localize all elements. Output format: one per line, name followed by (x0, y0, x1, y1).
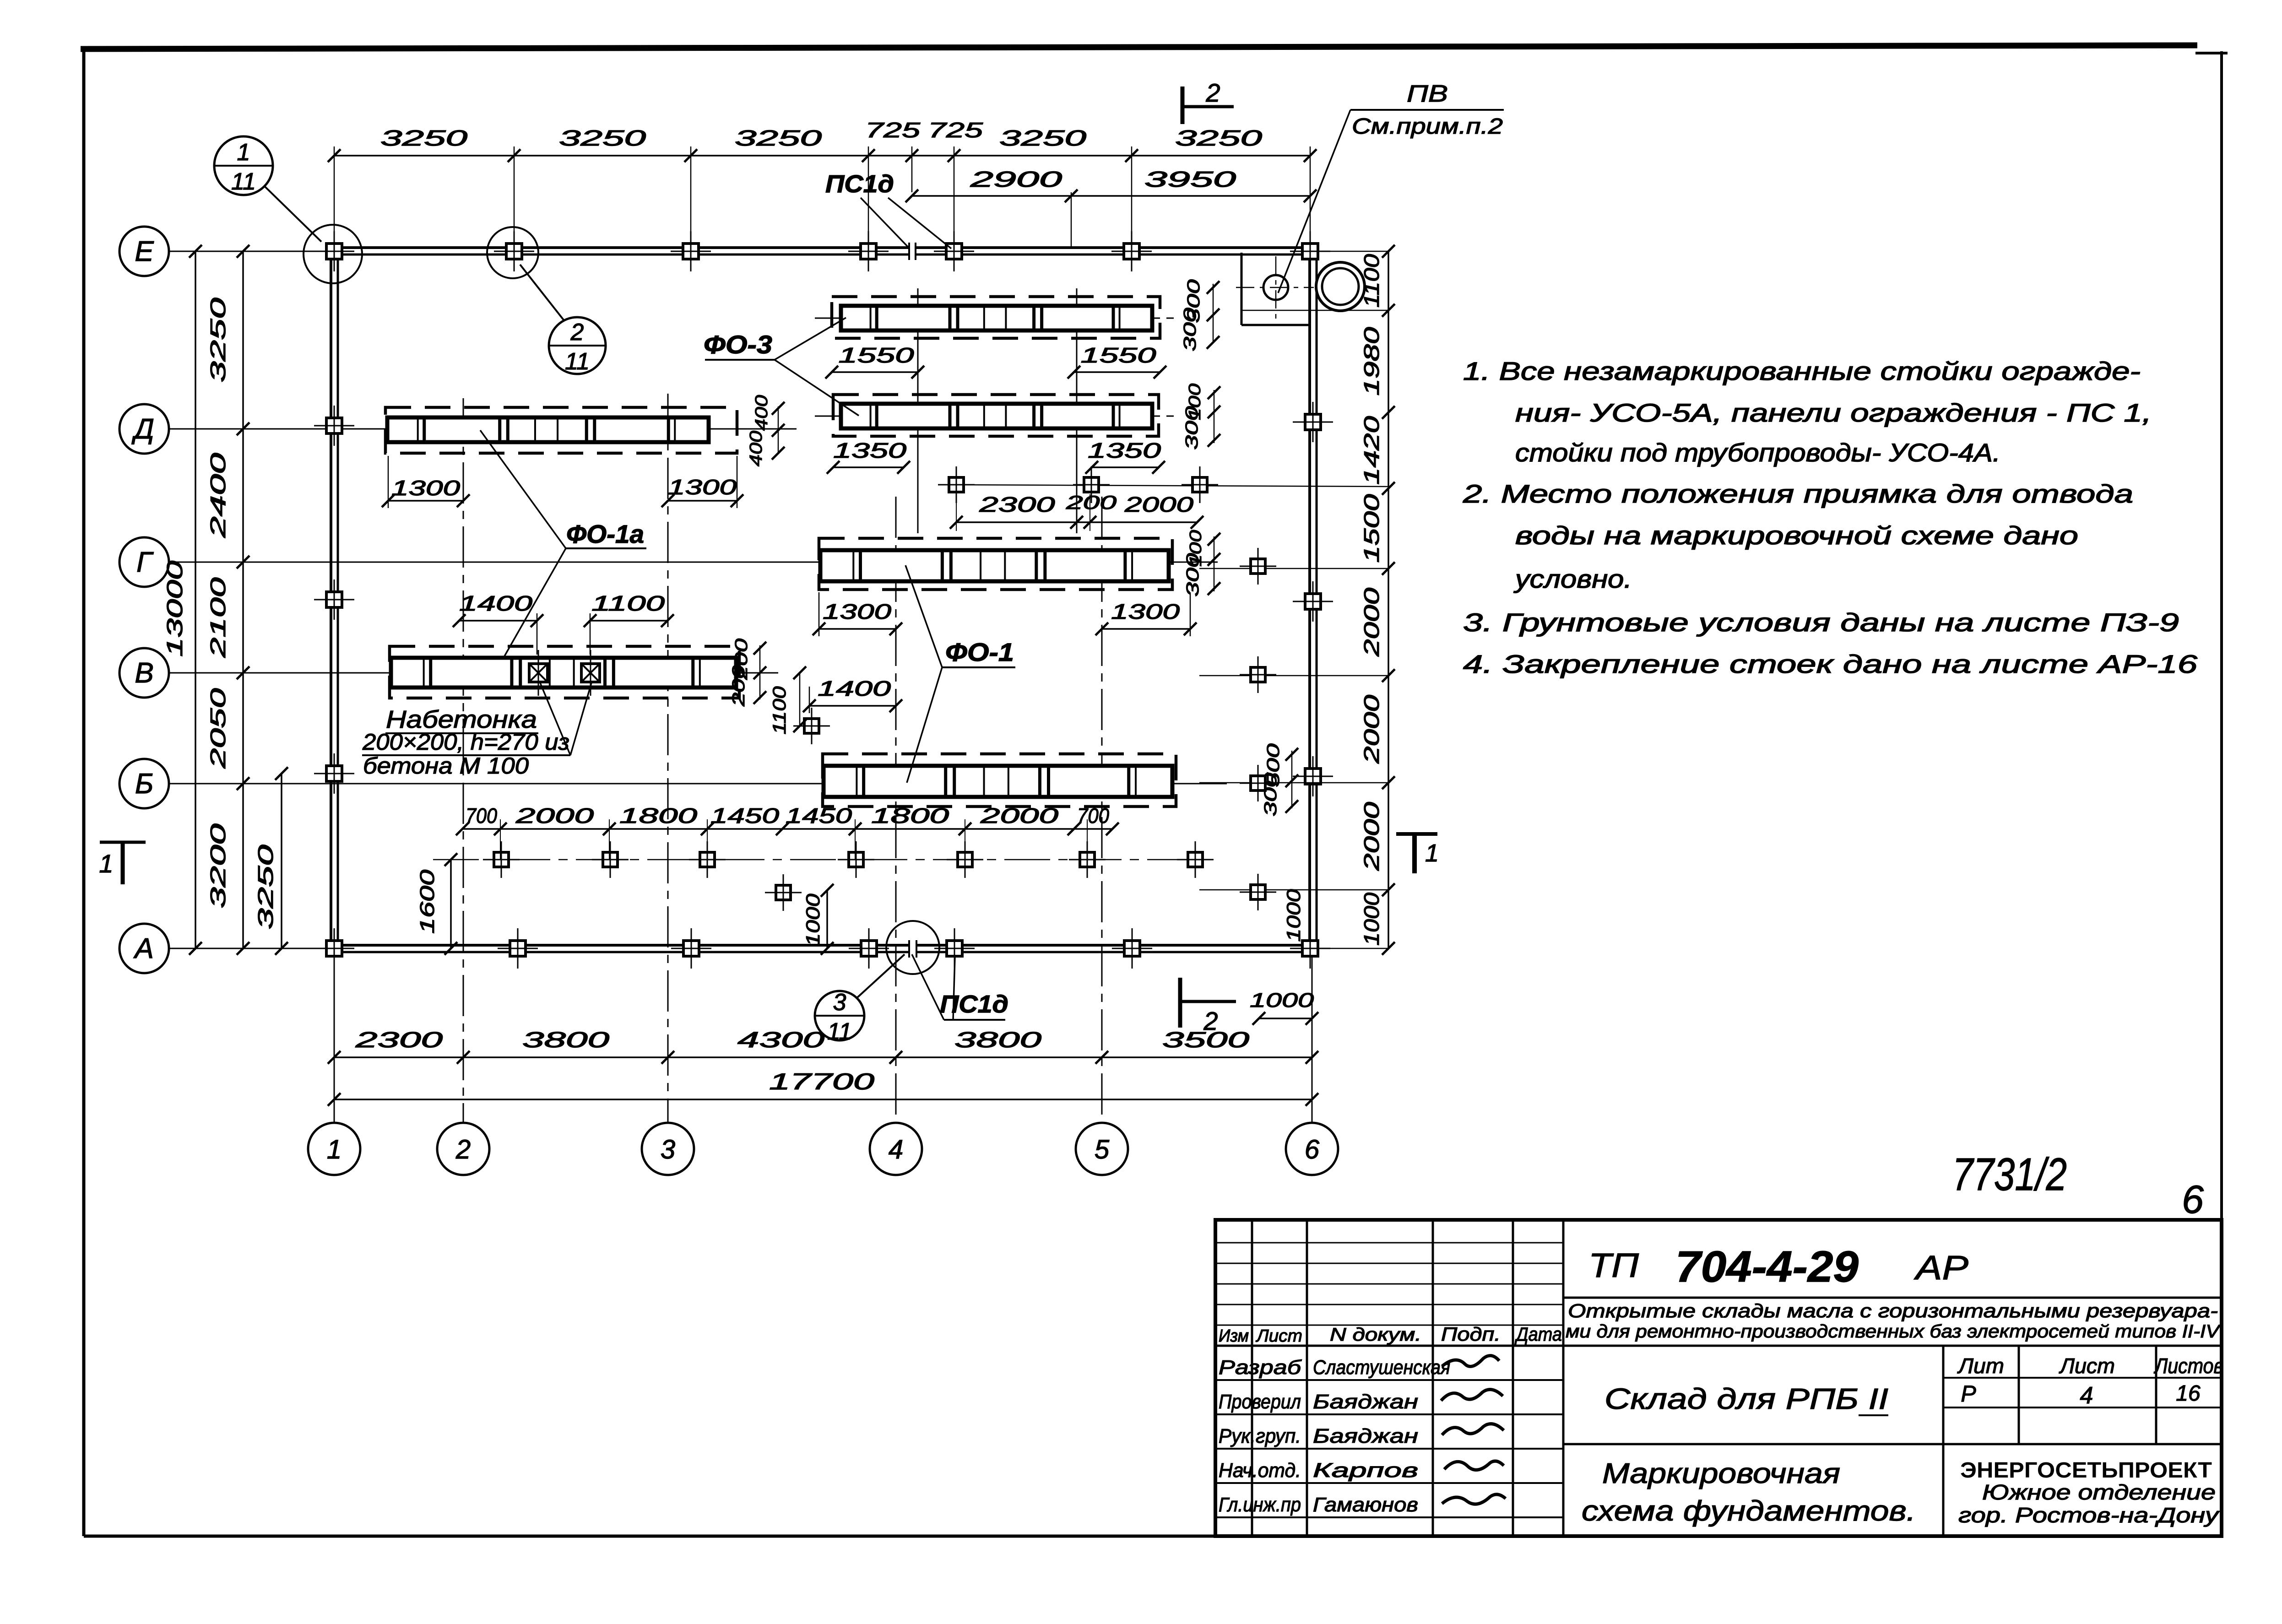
foundation strip FO-1 on axis G (819, 538, 1172, 590)
section marker 2 top (1181, 87, 1185, 124)
svg-text:схема фундаментов.: схема фундаментов. (1582, 1495, 1916, 1527)
fence post (2472,E) (1111, 231, 1152, 271)
svg-text:6: 6 (1305, 1135, 1320, 1164)
svg-text:3250: 3250 (380, 126, 468, 151)
svg-text:N докум.: N докум. (1330, 1325, 1421, 1345)
dim 1400 above strip V (459, 620, 537, 622)
axis circle 3 (642, 1123, 694, 1175)
axis circle 1 (308, 1123, 360, 1175)
svg-text:2000: 2000 (1360, 587, 1383, 657)
dim 1600 vertical (450, 860, 452, 948)
dim 1400 below strip V to axis 4 (809, 705, 896, 707)
interior posts row y=1059 (938, 466, 975, 503)
svg-text:Р: Р (1961, 1381, 1976, 1407)
foundation strip FO-1a on axis D (385, 407, 737, 453)
svg-text:1000: 1000 (1283, 889, 1304, 942)
svg-text:Д: Д (131, 413, 154, 445)
svg-text:13000: 13000 (163, 561, 187, 657)
fence post (1,1690) (314, 753, 354, 794)
svg-text:3800: 3800 (954, 1028, 1042, 1052)
lit list listov columns (2018, 1346, 2020, 1444)
signatures squiggles (1442, 1356, 1499, 1367)
interior posts row y=1878 (433, 859, 1209, 861)
mini dims 500 300 at strip B right end (1291, 751, 1293, 808)
svg-text:Склад для РПБ II: Склад для РПБ II (1604, 1382, 1888, 1415)
svg-text:3250: 3250 (735, 126, 822, 151)
svg-text:2400: 2400 (206, 453, 230, 539)
svg-text:2. Место положения приямка: 2. Место положения приямка для отвода (1463, 479, 2133, 508)
svg-text:1300: 1300 (668, 475, 737, 499)
svg-text:1980: 1980 (1360, 327, 1383, 396)
svg-text:3250: 3250 (559, 126, 646, 151)
node circle joint on axis A (886, 921, 939, 974)
fence post (1898,A) (849, 928, 889, 969)
svg-text:Маркировочная: Маркировочная (1602, 1458, 1840, 1489)
svg-text:400: 400 (747, 431, 766, 466)
svg-text:стойки под трубопроводы- УС: стойки под трубопроводы- УСО-4А. (1515, 438, 2000, 467)
svg-text:2000: 2000 (515, 804, 594, 828)
mini dims 100 300 at FO-3 lower right end (1214, 390, 1215, 443)
axis circle 6 (1286, 1123, 1338, 1175)
detail marker 3/11 (815, 989, 864, 1045)
svg-text:1000: 1000 (1360, 893, 1383, 946)
axis circle 4 (870, 1123, 922, 1175)
svg-text:Карпов: Карпов (1313, 1459, 1418, 1482)
svg-text:Гамаюнов: Гамаюнов (1313, 1494, 1418, 1516)
svg-text:3250: 3250 (999, 126, 1087, 151)
svg-text:1800: 1800 (619, 804, 698, 828)
svg-text:Е: Е (135, 236, 154, 267)
svg-text:2300: 2300 (979, 493, 1055, 516)
svg-text:2300: 2300 (355, 1028, 443, 1052)
svg-text:АР: АР (1913, 1249, 1968, 1287)
svg-text:Лист: Лист (2059, 1354, 2115, 1378)
foundation strip FO-1 on axis B (823, 754, 1176, 807)
detail marker 1/11 (214, 136, 273, 195)
axis circle Б (119, 759, 169, 808)
offset post (1711,1950) (765, 874, 802, 911)
right fence axis 6 double line (1308, 248, 1311, 952)
svg-text:725: 725 (865, 118, 921, 142)
svg-text:1550: 1550 (839, 343, 915, 367)
grid line axis 3 (667, 394, 669, 1122)
fence post (2862,A) (1290, 928, 1330, 969)
fence post (2085,A) (934, 928, 975, 969)
svg-text:1400: 1400 (818, 677, 891, 700)
svg-text:Баяджан: Баяджан (1313, 1391, 1418, 1413)
left dimension chain 3250 2400 2100 2050 3200 (242, 251, 244, 948)
section marker 2 bottom (1178, 978, 1182, 1028)
fence post (2084,E) (934, 231, 974, 271)
svg-text:Изм: Изм (1219, 1326, 1249, 1346)
connector lines to right chain (1320, 251, 1388, 252)
svg-text:1300: 1300 (823, 600, 892, 623)
title block vertical main divider (1942, 1346, 1945, 1536)
svg-text:1. Все незамаркированные ст: 1. Все незамаркированные стойки огражде- (1463, 357, 2141, 385)
svg-text:4: 4 (2080, 1382, 2093, 1409)
foundation strip on axis V (390, 646, 739, 698)
svg-text:1450: 1450 (710, 804, 780, 828)
svg-text:1350: 1350 (833, 438, 907, 462)
top dimension chain 3250x3 725x2 3250x2 (334, 155, 1310, 157)
svg-text:16: 16 (2176, 1381, 2201, 1406)
svg-text:6: 6 (2182, 1178, 2204, 1222)
title block frame (1215, 1220, 2222, 1536)
svg-text:1000: 1000 (1250, 989, 1314, 1012)
mini dims 300 300 at FO-3 upper right end (1213, 284, 1214, 343)
svg-text:3200: 3200 (206, 823, 230, 909)
svg-text:Лист: Лист (1255, 1326, 1302, 1346)
dim 1100 vertical to post (1773,1586) (799, 673, 801, 726)
grid line axis 4 (895, 497, 897, 1122)
left fence axis 1 double line (330, 248, 332, 952)
dim 1300 left under strip D (388, 500, 463, 502)
dim 1350 left under FO-3 lower (833, 466, 904, 468)
svg-text:1450: 1450 (786, 804, 852, 828)
svg-text:Подп.: Подп. (1441, 1323, 1501, 1345)
svg-text:ЭНЕРГОСЕТЬПРОЕКТ: ЭНЕРГОСЕТЬПРОЕКТ (1960, 1458, 2212, 1483)
fence post (1131,A) (498, 928, 538, 969)
dim 1550 right under FO-3 upper (1074, 371, 1160, 373)
fence post (6,1696) (1293, 756, 1333, 796)
svg-text:2100: 2100 (206, 577, 230, 658)
svg-text:7731/2: 7731/2 (1952, 1149, 2067, 1200)
foundation strip FO-3 lower (815, 416, 1179, 417)
concrete pad 200x200 #1 (529, 650, 547, 696)
detail marker 2/11 (549, 317, 606, 375)
svg-text:400: 400 (752, 395, 771, 431)
svg-text:Нач.отд.: Нач.отд. (1219, 1459, 1301, 1482)
well double circle (1316, 262, 1365, 311)
title block verticals left table (1251, 1220, 1253, 1536)
title block line mid (1563, 1443, 2222, 1445)
svg-text:1300: 1300 (391, 476, 461, 500)
svg-text:ми для ремонтно-производственн: ми для ремонтно-производственных баз эле… (1566, 1321, 2221, 1342)
svg-text:300: 300 (1183, 553, 1203, 597)
axis Г line (169, 562, 1218, 563)
svg-text:Листов: Листов (2153, 1354, 2223, 1378)
svg-text:ПС1д: ПС1д (825, 170, 894, 198)
svg-text:В: В (135, 657, 153, 689)
bottom overall dimension 17700 (334, 1099, 1312, 1100)
svg-text:2000: 2000 (1360, 801, 1383, 871)
svg-text:ФО-1: ФО-1 (945, 638, 1014, 666)
dim 1300 right under strip D (668, 500, 737, 502)
bottom fence joint PS1d (908, 940, 910, 958)
svg-text:4: 4 (889, 1135, 903, 1164)
extension line x=2005 (917, 288, 919, 533)
svg-text:Сластушенская: Сластушенская (1313, 1356, 1450, 1379)
title block header row line (1215, 1345, 2222, 1347)
fence post (730,A) (314, 928, 354, 969)
svg-text:17700: 17700 (769, 1069, 874, 1094)
svg-text:300: 300 (1182, 406, 1202, 450)
svg-text:1400: 1400 (459, 591, 533, 615)
svg-text:3250: 3250 (254, 844, 277, 930)
svg-text:2000: 2000 (1360, 694, 1383, 764)
foundation strip FO-3 upper (815, 318, 1179, 319)
axis А line (169, 948, 339, 949)
leaders to pads (540, 683, 570, 755)
corner node circle axis 1/E (304, 225, 362, 283)
svg-text:1100: 1100 (591, 591, 665, 615)
svg-text:Дата: Дата (1514, 1323, 1562, 1345)
svg-text:1600: 1600 (416, 869, 439, 934)
svg-text:Б: Б (135, 768, 153, 800)
post below strip V (1773,1586) (793, 708, 830, 744)
svg-text:ФО-1а: ФО-1а (566, 520, 644, 548)
svg-text:Открытые склады масла с горизо: Открытые склады масла с горизонтальными … (1568, 1300, 2218, 1321)
svg-text:200: 200 (729, 665, 748, 707)
svg-text:700: 700 (466, 804, 497, 828)
sheet border frame (81, 45, 2197, 49)
fence post (1509,E) (671, 231, 711, 271)
svg-text:1500: 1500 (1360, 494, 1383, 563)
svg-text:См.прим.п.2: См.прим.п.2 (1352, 114, 1503, 139)
fence post (1,930) (314, 406, 354, 446)
svg-text:725: 725 (928, 118, 983, 142)
svg-text:А: А (133, 933, 153, 964)
svg-text:условно.: условно. (1513, 564, 1632, 593)
fence post (6,1314) (1293, 581, 1333, 622)
svg-text:3: 3 (833, 989, 846, 1016)
svg-text:3800: 3800 (522, 1028, 610, 1052)
top fence joint PS1d (908, 243, 910, 260)
svg-text:бетона М 100: бетона М 100 (363, 753, 529, 779)
axis Б line (169, 783, 1227, 785)
top dimension chain 2900 3950 (912, 195, 1310, 197)
grid line axis 2 (463, 398, 464, 1122)
pit drain circle (1263, 275, 1288, 300)
svg-text:2: 2 (570, 319, 584, 346)
fence post (6,922) (1293, 402, 1333, 442)
svg-text:Проверил: Проверил (1219, 1391, 1301, 1413)
mini dims 100 300 at strip G right end (1214, 536, 1215, 591)
fence post (1123,E) (494, 231, 534, 271)
svg-text:11: 11 (231, 168, 256, 195)
svg-text:200×200, h=270 из: 200×200, h=270 из (362, 729, 569, 755)
dim chain 2300 200 2000 above strip G (956, 521, 1197, 523)
fence post (2862,E) (1290, 231, 1330, 271)
svg-text:11: 11 (565, 348, 590, 375)
axis circle В (119, 648, 169, 698)
right dimension chain 1100 1980 1420 1500 2000 2000 2000 1000 (1388, 251, 1389, 948)
svg-text:Южное отделение: Южное отделение (1982, 1480, 2216, 1504)
svg-text:ТП: ТП (1588, 1246, 1639, 1284)
extension line x=2352 (1076, 288, 1078, 533)
fence post (1510,A) (671, 928, 711, 969)
bottom inner chain 700 2000 1800 1450 1450 1800 2000 700 (462, 828, 1112, 830)
fence post (2473,A) (1112, 928, 1152, 969)
svg-text:5: 5 (1095, 1135, 1110, 1164)
mini dims 200 200 at strip V right end (759, 645, 761, 699)
grid line axis 5 (1101, 497, 1103, 1122)
axis Д line (169, 428, 797, 430)
svg-text:704-4-29: 704-4-29 (1675, 1242, 1859, 1291)
title block signature row lines (1215, 1379, 1563, 1381)
dim 1000 bottom right (1259, 1018, 1312, 1019)
svg-text:2000: 2000 (1124, 493, 1194, 516)
title block small rows (1215, 1242, 1563, 1244)
svg-text:4. Закрепление стоек дано: 4. Закрепление стоек дано на листе АР-16 (1463, 650, 2198, 678)
svg-text:1420: 1420 (1360, 416, 1383, 485)
interior posts column x=2748 (1240, 548, 1276, 585)
axis circle Г (119, 537, 169, 587)
bottom fence axis A double line (331, 944, 909, 947)
svg-text:2: 2 (1205, 78, 1220, 107)
svg-text:2: 2 (455, 1135, 471, 1164)
svg-text:Разраб: Разраб (1219, 1356, 1302, 1379)
fence post (730,E) (314, 231, 354, 271)
fence post (1897,E) (848, 231, 889, 271)
svg-text:1350: 1350 (1088, 438, 1161, 462)
dim 1000 vertical near post (826, 890, 828, 948)
fence post (1,1310) (314, 579, 354, 620)
dim 1100 above strip V (590, 620, 667, 622)
svg-text:11: 11 (827, 1018, 852, 1045)
svg-text:3250: 3250 (1175, 126, 1263, 151)
svg-text:1: 1 (99, 849, 113, 878)
svg-text:Гл.инж.пр: Гл.инж.пр (1219, 1494, 1301, 1516)
axis circle 2 (437, 1123, 489, 1175)
dim 1350 right under FO-3 lower (1092, 466, 1159, 468)
svg-text:Лит: Лит (1957, 1354, 2004, 1378)
svg-text:2050: 2050 (206, 688, 230, 769)
bottom axis chain 2300 3800 4300 3800 3500 (334, 1056, 1312, 1058)
svg-text:300: 300 (1181, 308, 1200, 352)
dim 1300 right under strip G (1102, 628, 1190, 630)
left overall dimension 13000 (195, 251, 196, 948)
svg-text:1100: 1100 (770, 687, 790, 735)
svg-text:гор. Ростов-на-Дону: гор. Ростов-на-Дону (1958, 1503, 2220, 1527)
svg-text:ния- УСО-5А, панели огражд: ния- УСО-5А, панели ограждения - ПС 1, (1515, 398, 2152, 427)
svg-text:ПВ: ПВ (1407, 81, 1448, 107)
grid line axis 6 extension to circle (1312, 954, 1313, 1122)
concrete pad 200x200 #2 (581, 650, 600, 696)
svg-text:3950: 3950 (1144, 168, 1236, 192)
node circle post 2 on axis E (487, 227, 538, 278)
svg-text:1550: 1550 (1081, 343, 1157, 367)
section marker 1 left (100, 841, 146, 844)
svg-text:Г: Г (136, 547, 154, 578)
axis В line (169, 672, 778, 674)
axis circle Д (119, 404, 169, 454)
svg-text:1: 1 (1425, 839, 1439, 867)
title block line under doc code (1563, 1297, 2222, 1299)
dim 1550 left under FO-3 upper (832, 371, 918, 373)
svg-text:1000: 1000 (802, 893, 824, 947)
svg-text:Баяджан: Баяджан (1313, 1425, 1418, 1447)
svg-text:2900: 2900 (970, 168, 1062, 192)
axis circle А (119, 924, 169, 973)
axis circle 5 (1076, 1123, 1128, 1175)
svg-text:1: 1 (237, 139, 250, 166)
svg-text:3: 3 (661, 1135, 675, 1164)
axis Е line (169, 251, 339, 252)
grid line axis 1 extension to circle (334, 954, 335, 1122)
svg-text:4300: 4300 (737, 1028, 825, 1052)
svg-text:воды на маркировочной схем: воды на маркировочной схеме дано (1515, 521, 2078, 550)
svg-text:3500: 3500 (1162, 1028, 1250, 1052)
top fence axis E double line (331, 246, 909, 249)
axis circle Е (119, 227, 169, 276)
svg-text:1300: 1300 (1111, 600, 1180, 623)
svg-text:ПС1д: ПС1д (940, 991, 1008, 1018)
svg-text:Рук.груп.: Рук.груп. (1219, 1425, 1301, 1447)
left dimension 3250 (B-A) (281, 774, 282, 948)
svg-text:3. Грунтовые условия даны: 3. Грунтовые условия даны на листе ПЗ-9 (1463, 608, 2179, 637)
mini dims 400 400 at strip D right end (778, 406, 779, 454)
section marker 1 right (1396, 832, 1437, 836)
svg-text:1: 1 (327, 1135, 341, 1164)
svg-text:ФО-3: ФО-3 (704, 330, 772, 359)
svg-text:3250: 3250 (206, 298, 230, 383)
pit rectangle (1241, 253, 1243, 325)
dim 1300 left under strip G (819, 628, 896, 630)
